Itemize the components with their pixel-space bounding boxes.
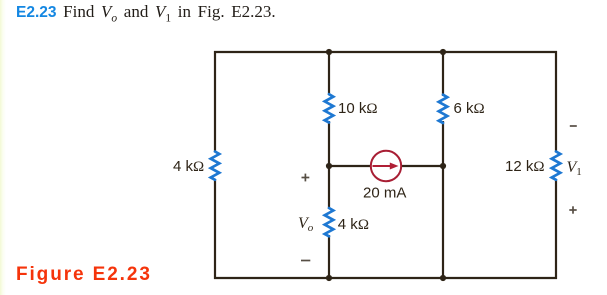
label Vo bbox=[298, 215, 314, 234]
label V1 bbox=[567, 159, 582, 178]
svg-text:12 kΩ: 12 kΩ bbox=[505, 158, 545, 175]
svg-text:10 kΩ: 10 kΩ bbox=[338, 100, 378, 117]
resistor 12 kOhm right bbox=[552, 152, 561, 180]
node dot top branch2 bbox=[440, 49, 446, 55]
svg-text:6 kΩ: 6 kΩ bbox=[454, 100, 485, 117]
node B dot bbox=[440, 163, 446, 169]
wire branch1 bottom segment bbox=[328, 235, 330, 279]
svg-text:Vo: Vo bbox=[298, 215, 314, 234]
resistor 10 kOhm bbox=[325, 94, 334, 122]
wire left upper segment bbox=[214, 51, 216, 152]
figure caption Figure E2.23 bbox=[16, 264, 152, 286]
minus sign Vo bbox=[301, 260, 310, 262]
label 4 kOhm output value bbox=[338, 216, 369, 233]
plus sign Vo bbox=[302, 174, 310, 182]
svg-text:V1: V1 bbox=[567, 159, 582, 178]
current source arrow bbox=[373, 163, 399, 170]
resistor 4 kOhm output branch bbox=[325, 208, 334, 236]
label 6 kOhm value bbox=[454, 100, 485, 117]
wire branch1 top segment bbox=[328, 51, 330, 95]
wire branch2 bottom segment bbox=[442, 121, 444, 279]
wire middle right segment (source to node B) bbox=[401, 165, 443, 167]
wire branch2 top segment bbox=[442, 51, 444, 96]
wire right upper segment bbox=[555, 51, 557, 152]
wire right lower segment bbox=[555, 179, 557, 279]
svg-text:4 kΩ: 4 kΩ bbox=[173, 158, 204, 175]
label 10 kOhm value bbox=[338, 100, 378, 117]
wire left lower segment bbox=[214, 179, 216, 279]
resistor 6 kOhm bbox=[439, 95, 448, 123]
svg-text:20 mA: 20 mA bbox=[363, 185, 406, 202]
label 20 mA value bbox=[363, 185, 406, 202]
minus sign V1 bbox=[570, 125, 577, 127]
node A dot bbox=[326, 163, 332, 169]
heading text E2.23 Find Vo and V1 in Fig. E2.23. bbox=[16, 2, 276, 22]
wire branch1 middle segment through node A bbox=[328, 121, 330, 209]
node dot bottom branch2 bbox=[440, 275, 446, 281]
plus sign V1 bbox=[569, 206, 576, 213]
node dot bottom branch1 bbox=[326, 275, 332, 281]
node dot top branch1 bbox=[326, 49, 332, 55]
wire bottom (215,278)-(556,278) bbox=[214, 277, 557, 279]
resistor 4 kOhm left bbox=[211, 152, 220, 180]
label 4 kOhm left value bbox=[173, 158, 204, 175]
current source 20 mA circle bbox=[371, 151, 401, 181]
wire middle left segment (node A to source) bbox=[329, 165, 371, 167]
label 12 kOhm value bbox=[505, 158, 545, 175]
svg-text:4 kΩ: 4 kΩ bbox=[338, 216, 369, 233]
wire top (215,52)-(556,52) bbox=[214, 51, 557, 53]
